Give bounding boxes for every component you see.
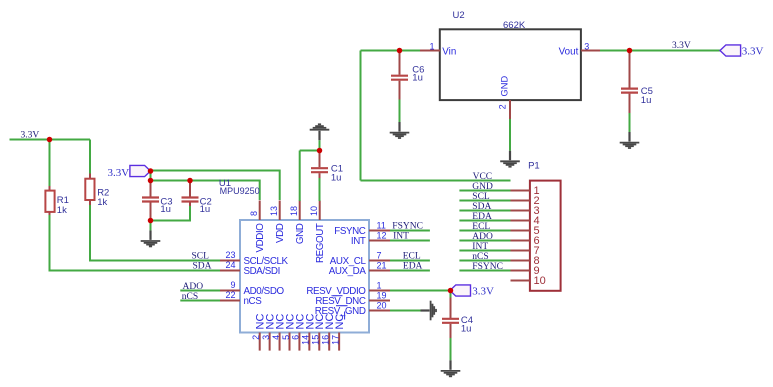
wire R2 top [89, 140, 91, 175]
wire Vout [600, 50, 720, 52]
connector P1 body [530, 181, 561, 291]
svg-text:NC: NC [334, 314, 346, 330]
svg-text:INT: INT [472, 242, 488, 252]
svg-text:AUX_DA: AUX_DA [329, 266, 367, 277]
resistor R2 [85, 179, 94, 200]
wire C4 top [450, 291, 452, 299]
svg-text:16: 16 [321, 335, 331, 345]
C2 bottom lead [189, 203, 191, 208]
svg-text:12: 12 [377, 231, 387, 241]
P1 pin 5 stub [511, 230, 530, 232]
svg-text:7: 7 [377, 251, 382, 261]
svg-text:11: 11 [377, 221, 386, 231]
junction C3 top [148, 178, 154, 184]
U1 bottom pin 4 stub [279, 333, 281, 351]
R2 bottom pin stub [89, 200, 91, 206]
svg-text:5: 5 [281, 335, 291, 340]
wire to VDDIO [151, 181, 260, 201]
svg-text:10: 10 [309, 206, 319, 216]
svg-text:REGOUT: REGOUT [315, 223, 326, 263]
svg-text:GND: GND [295, 223, 306, 244]
wire C2 bottom to C3 bottom [151, 206, 191, 221]
U1 right pin 19 stub [369, 300, 390, 302]
C2 top lead [189, 181, 191, 197]
U1 bottom pin 17 stub [338, 333, 340, 351]
svg-text:GND: GND [472, 182, 493, 192]
ground below C3 [141, 230, 161, 246]
wire C5 to ground [629, 113, 631, 132]
IC U1 body [240, 220, 369, 333]
svg-text:SCL: SCL [472, 192, 490, 202]
wire net ECL at P1 [459, 230, 510, 232]
P1 pin 1 stub [511, 190, 530, 192]
ground above REGOUT (flipped) [310, 124, 330, 140]
wire nCS [180, 300, 220, 302]
capacitor C2 [182, 198, 199, 202]
svg-text:14: 14 [301, 335, 311, 345]
U1 left pin 24 stub [220, 270, 240, 272]
svg-text:4: 4 [271, 335, 281, 340]
svg-text:17: 17 [330, 335, 340, 345]
wire VCC row [361, 180, 511, 182]
P1 pin 8 stub [511, 260, 530, 262]
wire net SDA at P1 [459, 210, 510, 212]
svg-text:2: 2 [498, 104, 508, 109]
wire flag down [150, 171, 152, 181]
svg-text:U2: U2 [453, 10, 465, 21]
P1 pin 3 stub [511, 210, 530, 212]
svg-text:1u: 1u [200, 204, 211, 215]
svg-text:21: 21 [377, 261, 387, 271]
junction C6 top [397, 48, 403, 54]
U1 bottom pin 6 stub [298, 333, 300, 351]
U1 top pin 13 stub [279, 201, 281, 221]
wire FSYNC [390, 230, 430, 232]
C3 bottom lead [150, 203, 152, 221]
ground at RESV_GND (rotated) [421, 301, 437, 321]
wire U2 GND [509, 119, 511, 151]
U1 top pin 18 stub [299, 201, 301, 221]
junction C2 top [187, 178, 193, 184]
C4 top lead [450, 298, 452, 319]
svg-text:24: 24 [225, 260, 235, 270]
U1 top pin 8 stub [259, 201, 261, 221]
svg-text:1k: 1k [57, 205, 67, 216]
P1 pin 10 stub [511, 280, 530, 282]
C6 top lead [399, 51, 401, 75]
wire net ADO at P1 [459, 240, 510, 242]
resistor R1 [45, 191, 54, 212]
svg-text:3.3V: 3.3V [108, 167, 130, 179]
wire C1 to REGOUT [319, 178, 321, 201]
wire C6 to ground [399, 100, 401, 123]
svg-text:VDD: VDD [275, 223, 286, 243]
capacitor C5 [621, 89, 638, 93]
C4 bottom lead [450, 324, 452, 339]
P1 pin 6 stub [511, 240, 530, 242]
svg-text:FSYNC: FSYNC [472, 262, 503, 272]
svg-text:Vin: Vin [442, 46, 456, 57]
svg-text:SDA: SDA [472, 202, 491, 212]
svg-text:23: 23 [225, 250, 235, 260]
P1 pin 7 stub [511, 250, 530, 252]
svg-text:20: 20 [377, 301, 387, 311]
svg-text:3.3V: 3.3V [472, 285, 494, 297]
svg-text:3.3V: 3.3V [742, 46, 764, 58]
svg-text:2: 2 [251, 335, 261, 340]
svg-text:VDDIO: VDDIO [255, 223, 266, 253]
U1 left pin 23 stub [220, 260, 240, 262]
svg-text:INT: INT [351, 236, 366, 247]
junction C5 top [627, 48, 633, 54]
wire R2 to SCL [90, 205, 220, 261]
svg-text:GND: GND [500, 76, 510, 97]
wire net INT at P1 [459, 250, 510, 252]
capacitor C3 [142, 198, 159, 202]
wire Vin [361, 50, 421, 52]
R1 top pin stub [49, 186, 51, 191]
svg-text:EDA: EDA [472, 212, 492, 222]
C5 top lead [629, 51, 631, 88]
wire net nCS at P1 [459, 260, 510, 262]
wire net SCL at P1 [459, 200, 510, 202]
U1 right pin 21 stub [369, 270, 390, 272]
svg-text:ECL: ECL [403, 252, 421, 262]
P1 pin 2 stub [511, 200, 530, 202]
power flag 3.3V at RESV_VDDIO [450, 285, 471, 296]
wire C3 bottom to ground [150, 221, 152, 231]
wire net GND at P1 [459, 190, 510, 192]
svg-text:1u: 1u [641, 95, 652, 106]
junction C3 bottom [148, 218, 154, 224]
svg-text:15: 15 [311, 335, 321, 345]
wire junction to GND pin [300, 151, 320, 202]
svg-text:nCS: nCS [244, 296, 263, 307]
R1 bottom pin stub [49, 212, 51, 216]
wire flag to VDD [151, 171, 280, 201]
svg-text:SCL: SCL [192, 251, 210, 261]
wire 3.3V rail [10, 139, 91, 141]
junction C1 top [317, 148, 323, 154]
svg-text:3: 3 [261, 335, 271, 340]
U1 right pin 7 stub [369, 260, 390, 262]
svg-text:P1: P1 [528, 161, 540, 172]
U1 bottom pin 15 stub [318, 333, 320, 351]
wire RESV_VDDIO to 3.3V [390, 290, 451, 292]
svg-text:10: 10 [534, 275, 546, 287]
power flag 3.3V right [720, 45, 741, 56]
svg-text:1: 1 [377, 281, 382, 291]
svg-text:FSYNC: FSYNC [392, 222, 423, 232]
svg-text:SDA: SDA [193, 261, 212, 271]
IC U2 body [440, 29, 581, 100]
wire VCC riser [360, 51, 362, 181]
U1 right pin 11 stub [369, 230, 390, 232]
wire C4 to ground [450, 338, 452, 360]
svg-text:MPU9250: MPU9250 [220, 186, 260, 196]
svg-text:1u: 1u [461, 324, 472, 335]
wire ECL [390, 260, 430, 262]
wire net FSYNC at P1 [459, 270, 510, 272]
U1 top pin 10 stub [319, 201, 321, 221]
svg-text:6: 6 [291, 335, 301, 340]
junction at C4 top [448, 288, 454, 294]
U1 bottom pin 3 stub [269, 333, 271, 351]
svg-text:22: 22 [225, 290, 235, 300]
svg-text:18: 18 [289, 206, 299, 216]
U1 bottom pin 16 stub [328, 333, 330, 351]
svg-text:13: 13 [269, 206, 279, 216]
wire R1 to SDA [50, 215, 221, 271]
ground below C4 [441, 360, 461, 376]
svg-text:3.3V: 3.3V [672, 41, 691, 51]
ground below C5 [620, 132, 640, 148]
U1 right pin 20 stub [369, 310, 390, 312]
U1 right pin 12 stub [369, 240, 390, 242]
capacitor C1 [311, 168, 328, 172]
svg-text:9: 9 [230, 280, 235, 290]
U1 bottom pin 14 stub [308, 333, 310, 351]
svg-text:Vout: Vout [559, 46, 579, 57]
svg-text:INT: INT [393, 232, 409, 242]
U1 bottom pin 2 stub [259, 333, 261, 351]
wire RESV_GND [390, 310, 421, 312]
C3 top lead [150, 181, 152, 197]
junction at R1 top [47, 137, 53, 143]
capacitor C6 [391, 76, 408, 80]
svg-text:1u: 1u [412, 73, 423, 84]
U2 Vout pin stub [581, 50, 600, 52]
C1 top lead [319, 151, 321, 168]
wire ground to junction [319, 140, 321, 150]
ground below U2 GND [500, 151, 520, 167]
R2 top pin stub [89, 174, 91, 180]
svg-text:1u: 1u [160, 204, 171, 215]
C1 bottom lead [319, 173, 321, 178]
svg-text:ECL: ECL [472, 222, 490, 232]
ground below C6 [390, 122, 410, 138]
U1 left pin 22 stub [220, 300, 240, 302]
svg-text:nCS: nCS [472, 252, 488, 262]
svg-text:19: 19 [377, 291, 387, 301]
wire net EDA at P1 [459, 220, 510, 222]
svg-text:VCC: VCC [473, 172, 493, 182]
capacitor C4 [442, 319, 459, 323]
overbar on RESV_DNC [333, 295, 343, 297]
wire R1 top [49, 140, 51, 187]
P1 pin 9 stub [511, 270, 530, 272]
svg-text:8: 8 [249, 211, 259, 216]
overbar on RESV_GND [336, 305, 348, 307]
svg-text:1u: 1u [331, 173, 342, 184]
overbar on NC pin 17 [344, 312, 346, 320]
U1 bottom pin 5 stub [288, 333, 290, 351]
svg-text:SDA/SDI: SDA/SDI [244, 266, 280, 277]
U1 left pin 9 stub [220, 290, 240, 292]
wire EDA [390, 270, 430, 272]
power flag 3.3V left [130, 165, 151, 176]
P1 pin 4 stub [511, 220, 530, 222]
svg-text:EDA: EDA [403, 262, 423, 272]
svg-text:1k: 1k [97, 197, 107, 208]
C6 bottom lead [399, 81, 401, 100]
wire INT [390, 240, 430, 242]
U1 right pin 1 stub [369, 290, 390, 292]
wire ADO [180, 290, 220, 292]
junction flag output [148, 168, 154, 174]
U2 GND pin stub [509, 100, 511, 120]
U2 Vin pin stub [420, 50, 440, 52]
svg-text:ADO: ADO [472, 232, 493, 242]
C5 bottom lead [629, 94, 631, 114]
